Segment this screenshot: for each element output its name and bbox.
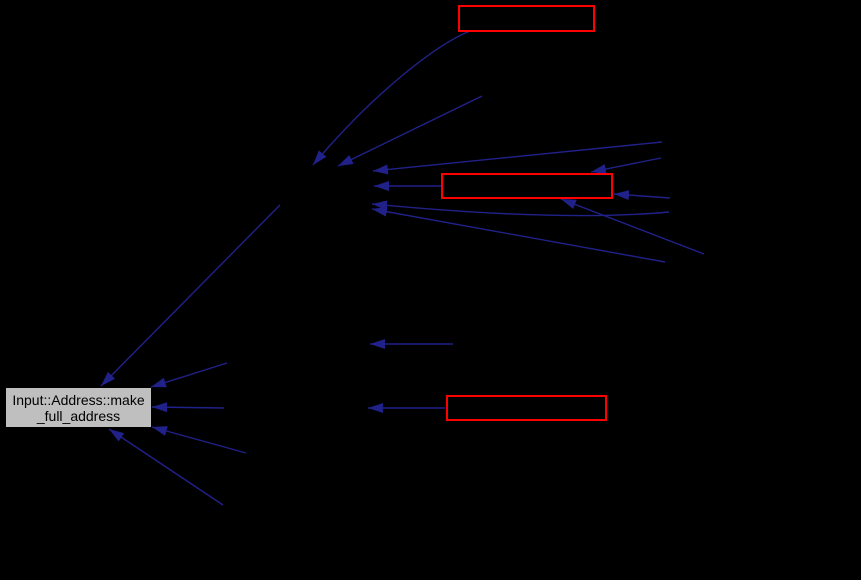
svg-text:_full_address: _full_address: [36, 408, 120, 424]
svg-text:Input::Address::make: Input::Address::make: [12, 392, 145, 408]
